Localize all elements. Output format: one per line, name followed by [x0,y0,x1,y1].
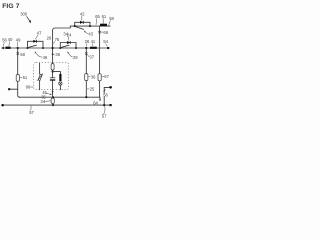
node dot on bus at x52.6 [52,47,54,49]
svg-text:25: 25 [90,87,95,92]
fuse 61 (black bar top right) [100,24,107,27]
node dot at x86 on mid wire [85,96,87,98]
wire bypass loop of diode 24 [60,43,76,49]
svg-text:54: 54 [103,39,108,44]
switch tick on right wire [104,89,106,91]
svg-text:65: 65 [95,14,100,19]
svg-text:61: 61 [102,14,107,19]
svg-text:FIG 7: FIG 7 [2,3,20,10]
diode 24 [67,41,70,44]
svg-text:37: 37 [89,54,94,59]
varistor branch inside enclosure [38,63,43,89]
long vertical wire x52.6 below bus [52,48,54,97]
svg-text:43: 43 [88,31,93,36]
diode 47 [33,40,36,43]
fuse 40 (black bar on bus) [5,47,10,49]
svg-text:76: 76 [55,37,60,42]
svg-text:26: 26 [47,35,52,40]
svg-text:28: 28 [85,39,90,44]
svg-text:300: 300 [20,12,28,17]
dashed enclosure 90 [34,62,69,89]
stub and label 64 [99,97,101,99]
svg-text:41: 41 [91,39,96,44]
svg-text:56: 56 [2,37,7,42]
node (right dot of contact 29) [75,47,77,49]
vertical wire from node 49 down (resistor 51 branch) [18,48,20,97]
resistor 51 [16,75,19,82]
reference 300 with arrow [20,12,31,24]
svg-text:36: 36 [91,74,96,79]
node 28 junction dot on bus [85,47,87,49]
branch wire to capacitor 35 / lamp [53,72,61,74]
switch contact 46 assembly [26,30,47,60]
wire from long vertical up to relay branch [53,26,111,48]
relay contact 43 assembly [74,11,94,36]
switch contact 29 assembly [59,32,78,60]
svg-text:51: 51 [23,75,28,80]
node 49 junction dot [17,47,19,49]
resistor 67 [98,74,101,81]
vertical wire from relay branch down (net 66/67) [99,26,101,97]
wire bypass loop of diode 47 [28,41,44,48]
node (right dot of contact 46) [42,47,44,49]
labels 45 35 34 cluster [40,90,52,104]
contact blade 29 [60,45,69,48]
varistor body (slanted box with diagonal) [38,74,42,80]
terminal 54 dot [107,47,109,49]
right side wire to terminal (net 59) [104,87,110,105]
main bus wire (node 49 line) [2,47,108,49]
diode 42 [80,21,83,24]
lamp (circle with cross) [59,82,62,85]
capacitor inside enclosure [50,77,55,79]
svg-text:66: 66 [103,30,108,35]
vertical wire x86 (resistor 36 branch) [85,48,87,97]
wire lead bottom [39,80,41,89]
svg-text:40: 40 [8,37,13,42]
svg-text:58: 58 [20,52,25,57]
fuse 41 (black bar on bus right) [90,47,97,49]
wire bypass loop of diode 42 [75,22,90,26]
node (right dot of contact 43) [89,25,91,27]
node dot at x53 on mid wire [52,96,54,98]
electrolytic capacitor (black bar) [59,74,61,81]
wire lead to enclosure bottom [59,85,61,90]
svg-text:36: 36 [55,52,60,57]
svg-text:47: 47 [37,30,42,35]
node (left dot of contact 46) [26,47,28,49]
wire lead top [39,63,41,74]
node 58 tick below bus [17,52,19,54]
contact blade 43 [75,26,84,29]
svg-text:46: 46 [43,55,48,60]
left terminal arrow 56 [1,47,4,50]
svg-text:58: 58 [109,16,114,21]
svg-text:42: 42 [80,11,85,16]
svg-text:49: 49 [16,37,21,42]
node (left dot of contact 29) [59,47,61,49]
bottom bus right terminal dot [110,104,112,106]
svg-text:57: 57 [102,114,107,119]
mid horizontal wire y97 [19,96,100,98]
svg-text:64: 64 [93,100,98,105]
bottom bus left terminal dot [1,104,4,107]
node 36 tick below bus [52,53,54,55]
node 37 tick [85,53,87,55]
svg-text:57: 57 [29,110,34,115]
terminal dot top right [109,86,112,89]
node dot x53 on bottom bus [52,104,54,106]
node dot x104 on bottom bus [103,104,105,106]
contact blade 46 [28,45,37,48]
svg-text:29: 29 [73,55,78,60]
wire arrow on vertical below enclosure [52,91,54,93]
fuse 35? oval component on vertical [51,64,54,70]
resistor 36 [85,74,88,81]
resistor 34? small box above bottom bus [51,98,54,103]
bottom bus wire [2,104,110,106]
node 66 tick [98,31,100,33]
terminal dot with stub wire at left [8,88,10,90]
node junction dot inside enclosure [52,71,54,73]
svg-text:67: 67 [104,74,109,79]
node (left dot of contact 43) [74,25,76,27]
svg-text:34: 34 [63,31,68,36]
svg-text:56: 56 [103,93,108,98]
